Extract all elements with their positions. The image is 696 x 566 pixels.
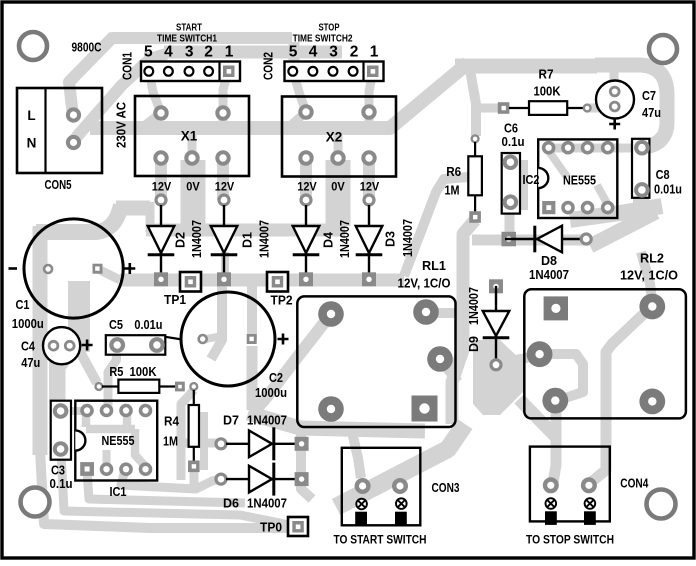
test point TP2	[267, 272, 288, 292]
diode D9	[483, 279, 510, 370]
wire C4 to R5 diagonal	[79, 350, 97, 383]
wire C2 plus down	[247, 346, 258, 410]
wire CON1 pin1 to X1	[223, 71, 228, 113]
connector CON4	[530, 447, 610, 525]
svg-text:CON5: CON5	[45, 177, 72, 192]
svg-text:NE555: NE555	[102, 433, 135, 448]
svg-text:1N4007: 1N4007	[401, 219, 415, 257]
svg-text:D6: D6	[223, 497, 239, 511]
diode D2	[148, 195, 175, 286]
svg-text:CON2: CON2	[261, 52, 276, 80]
connector CON2	[285, 62, 384, 82]
wire D7 D6 cathode vertical	[301, 428, 312, 499]
svg-text:C3: C3	[51, 464, 65, 478]
wire CON2 pin5 to X2	[293, 71, 306, 112]
wire C8 bottom band	[570, 190, 662, 220]
svg-text:IC1: IC1	[110, 485, 127, 499]
svg-text:CON4: CON4	[620, 477, 648, 491]
wire IC2 inner diagonal B	[597, 185, 608, 205]
svg-text:C5: C5	[109, 318, 123, 332]
svg-text:D8: D8	[541, 254, 557, 268]
wire top supply band	[111, 32, 292, 44]
wire R6 down vertical	[452, 220, 475, 424]
svg-text:12V: 12V	[215, 182, 235, 194]
labels 12V 0V 12V under X1	[152, 182, 235, 194]
pin numbers CON1 5 4 3 2 1	[144, 44, 234, 61]
svg-text:R4: R4	[164, 415, 179, 429]
svg-text:2: 2	[204, 44, 213, 61]
svg-text:230V AC: 230V AC	[114, 101, 129, 148]
test point TP1	[180, 272, 201, 292]
wire 12V bus to R6 diagonal	[404, 177, 468, 276]
wire bus to C2 plus pad	[247, 282, 257, 340]
svg-text:1N4007: 1N4007	[258, 220, 272, 258]
svg-text:12V, 1C/O: 12V, 1C/O	[620, 269, 678, 283]
resistor R5	[96, 380, 185, 393]
capacitor C3	[51, 401, 71, 460]
svg-text:TP1: TP1	[164, 293, 186, 307]
wire RL2 bottom to CON4 left	[553, 396, 556, 483]
resistor R4	[188, 383, 200, 472]
svg-text:C2: C2	[269, 371, 283, 385]
wire X2 secondary mid stub	[334, 130, 343, 158]
wire bus to C2 left pad	[211, 282, 222, 359]
svg-text:TO STOP SWITCH: TO STOP SWITCH	[526, 533, 614, 547]
svg-text:12V: 12V	[152, 182, 172, 194]
wire 0V horizontal bus	[116, 201, 150, 216]
svg-text:N: N	[27, 136, 37, 151]
svg-text:D7: D7	[223, 414, 239, 428]
wire bus to C4 plus	[68, 281, 90, 352]
wire IC1 inner band 2	[87, 471, 245, 503]
diode D6	[216, 463, 309, 496]
svg-text:0V: 0V	[186, 182, 200, 194]
svg-text:TP0: TP0	[260, 521, 282, 535]
wire 0V elbow into C1	[36, 205, 121, 232]
wire X1 secondary mid stub	[188, 130, 197, 158]
svg-text:D2: D2	[174, 232, 188, 248]
svg-text:1000u: 1000u	[12, 317, 44, 331]
svg-text:1N4007: 1N4007	[467, 287, 481, 325]
svg-text:D1: D1	[241, 232, 255, 248]
wire C6 bottom stub	[506, 204, 515, 238]
svg-text:C7: C7	[642, 89, 656, 103]
wire CON5 N to band	[74, 54, 167, 141]
wire RL1 coil diagonal to bus	[254, 314, 331, 412]
wire RL1 top right stub	[426, 308, 470, 318]
svg-text:RL2: RL2	[640, 252, 664, 266]
connector CON3	[342, 448, 421, 526]
svg-text:5: 5	[144, 44, 153, 61]
resistor R6	[468, 135, 482, 222]
diode D4	[293, 195, 320, 286]
resistor R7	[498, 101, 591, 115]
svg-text:4: 4	[309, 44, 318, 61]
wire IC1 pin2 stub	[103, 450, 111, 466]
mounting hole bottom left	[21, 488, 50, 517]
wire bottom bus to CON3	[248, 413, 425, 431]
capacitor C4	[43, 327, 93, 364]
wire RL2 inner elbow	[540, 354, 583, 399]
svg-text:1M: 1M	[163, 435, 178, 449]
svg-text:3: 3	[185, 44, 194, 61]
transformer X1	[135, 96, 249, 176]
svg-text:1M: 1M	[445, 184, 460, 198]
svg-text:X2: X2	[326, 130, 343, 145]
wire R6 branch to R7 left pad	[476, 104, 500, 113]
svg-text:1N4007: 1N4007	[338, 220, 352, 258]
svg-text:CON3: CON3	[432, 481, 460, 495]
wire X2 0V column	[326, 160, 351, 226]
svg-text:R6: R6	[446, 165, 461, 179]
svg-text:IC2: IC2	[523, 173, 540, 187]
svg-text:0.1u: 0.1u	[502, 135, 525, 149]
wire IC1 inner net	[86, 413, 145, 466]
wire IC2 top pad bus	[546, 144, 641, 153]
transformer X2	[282, 97, 396, 177]
svg-text:TP2: TP2	[271, 294, 293, 308]
svg-text:C4: C4	[21, 340, 35, 354]
svg-text:CON1: CON1	[120, 52, 135, 80]
svg-text:12V: 12V	[360, 182, 380, 194]
wire D1 cathode stub	[221, 252, 229, 275]
wire C1 minus stub	[38, 265, 48, 274]
IC U2 NE555 IC2	[538, 139, 617, 218]
mounting hole top left	[19, 32, 47, 60]
IC U1 NE555 IC1	[75, 401, 157, 481]
svg-text:TO START SWITCH: TO START SWITCH	[334, 533, 427, 547]
svg-text:0.01u: 0.01u	[654, 183, 682, 197]
wire X1 primary right stub	[219, 113, 228, 124]
svg-text:NE555: NE555	[563, 173, 596, 188]
pin numbers CON2 5 4 3 2 1	[289, 44, 379, 61]
svg-text:1000u: 1000u	[255, 386, 287, 400]
wire CON5 L to band	[69, 36, 114, 120]
wire C6 right vertical	[520, 160, 528, 210]
mounting hole bottom right	[647, 490, 676, 519]
wire X2 primary left stub	[290, 112, 306, 126]
wire IC2 inner diagonal A	[548, 150, 567, 177]
relay RL2	[524, 289, 686, 418]
wire C2 left pad link	[206, 336, 222, 339]
wire D9 cathode pour	[473, 340, 524, 415]
svg-text:R5: R5	[109, 365, 123, 379]
diode D8	[502, 226, 592, 253]
capacitor C2	[181, 292, 289, 386]
svg-text:D4: D4	[322, 232, 336, 248]
svg-text:C1: C1	[16, 298, 30, 312]
wire C5 to IC1 pin	[108, 347, 117, 408]
svg-text:L: L	[27, 108, 35, 123]
capacitor C6	[502, 153, 520, 214]
wire IC1 inner band 1	[121, 470, 220, 489]
capacitor C8	[632, 139, 649, 198]
wire C3 to IC1 pin8	[61, 407, 86, 415]
wire C7 to band	[610, 66, 619, 86]
wire CON3 left pad riser	[352, 432, 361, 478]
wire R4 bottom stub	[190, 468, 199, 489]
wire IC1 outer band 4	[40, 450, 288, 528]
svg-text:2: 2	[350, 44, 359, 61]
svg-text:0V: 0V	[331, 182, 345, 194]
wire X1 0V column	[181, 160, 206, 226]
wire X1 primary left stub	[144, 113, 161, 126]
wire top band right horizontal	[455, 59, 597, 74]
wire X1 12V right column	[217, 158, 229, 200]
wire branch to RL2 coil	[641, 252, 652, 300]
wire R4 right vertical	[200, 412, 208, 470]
svg-text:4: 4	[164, 44, 173, 61]
svg-text:1N4007: 1N4007	[247, 414, 287, 428]
wire second top band	[164, 46, 342, 59]
svg-text:0.01u: 0.01u	[134, 318, 162, 332]
svg-text:100K: 100K	[534, 85, 561, 99]
capacitor C1	[9, 219, 136, 318]
wire R7 to C7	[586, 104, 613, 113]
svg-text:0.1u: 0.1u	[50, 477, 73, 491]
svg-text:TIME SWITCH2: TIME SWITCH2	[293, 33, 353, 45]
wire RL2 coil to D9	[505, 355, 541, 362]
svg-text:C6: C6	[504, 122, 518, 136]
wire pour to CON4 link	[519, 399, 556, 437]
svg-text:R7: R7	[539, 68, 554, 82]
capacitor C5	[106, 335, 182, 355]
wire D8 horizontal net	[472, 235, 590, 246]
svg-text:D3: D3	[384, 231, 398, 247]
wire C3 to C4	[61, 346, 70, 411]
svg-text:X1: X1	[181, 129, 198, 144]
svg-text:RL1: RL1	[422, 259, 446, 273]
wire RL2 top right diagonal	[590, 308, 650, 483]
wire RL1 mid pad diagonal	[440, 359, 458, 382]
svg-text:47u: 47u	[642, 106, 661, 120]
diode D1	[211, 195, 238, 286]
svg-text:1N4007: 1N4007	[529, 268, 569, 282]
wire X2 12V left column	[300, 158, 312, 200]
diode D3	[356, 195, 383, 286]
connector CON5	[17, 88, 102, 173]
svg-text:12V: 12V	[297, 182, 317, 194]
wire vertical to CON3 diagonal	[336, 424, 465, 507]
diode D7	[216, 427, 309, 460]
wire left vertical bus	[33, 226, 48, 455]
wire CON1 pin5 to X1	[149, 71, 161, 113]
capacitor C7	[596, 81, 634, 130]
connector CON1	[141, 62, 240, 82]
wire primary bus through X1 X2	[90, 63, 468, 128]
wire C4 left down	[49, 346, 58, 400]
svg-text:C8: C8	[656, 168, 670, 182]
wire X1 12V left column	[155, 158, 167, 200]
svg-text:100K: 100K	[130, 365, 157, 379]
wire X2 12V right column	[363, 158, 375, 200]
svg-text:47u: 47u	[21, 356, 40, 370]
wire IC1 inner band 3	[61, 452, 293, 526]
svg-text:12V, 1C/O: 12V, 1C/O	[398, 277, 451, 291]
svg-text:1N4007: 1N4007	[190, 220, 204, 258]
svg-text:9800C: 9800C	[72, 40, 102, 55]
wire CON2 pin1 to X2	[369, 71, 373, 112]
wire D7 feed	[181, 390, 218, 480]
svg-text:1: 1	[225, 44, 234, 61]
wire band to D8 diagonal	[590, 212, 656, 246]
svg-text:D9: D9	[467, 336, 481, 352]
labels 12V 0V 12V under X2	[297, 182, 379, 194]
wire band down to R6 top	[470, 70, 476, 136]
svg-text:5: 5	[289, 44, 298, 61]
mounting hole top right	[649, 35, 677, 63]
svg-text:1: 1	[370, 44, 379, 61]
svg-text:1N4007: 1N4007	[247, 497, 287, 511]
svg-text:3: 3	[329, 44, 338, 61]
wire C1 plus stub	[98, 269, 120, 280]
wire D8 to IC2 pin1	[505, 206, 514, 237]
test point TP0	[288, 517, 308, 536]
wire X2 primary right stub	[365, 112, 374, 124]
wire 12V horizontal bus	[120, 274, 404, 287]
svg-text:TIME SWITCH1: TIME SWITCH1	[157, 33, 217, 45]
wire band down to C8 pin	[595, 65, 667, 147]
relay RL1	[297, 296, 455, 427]
